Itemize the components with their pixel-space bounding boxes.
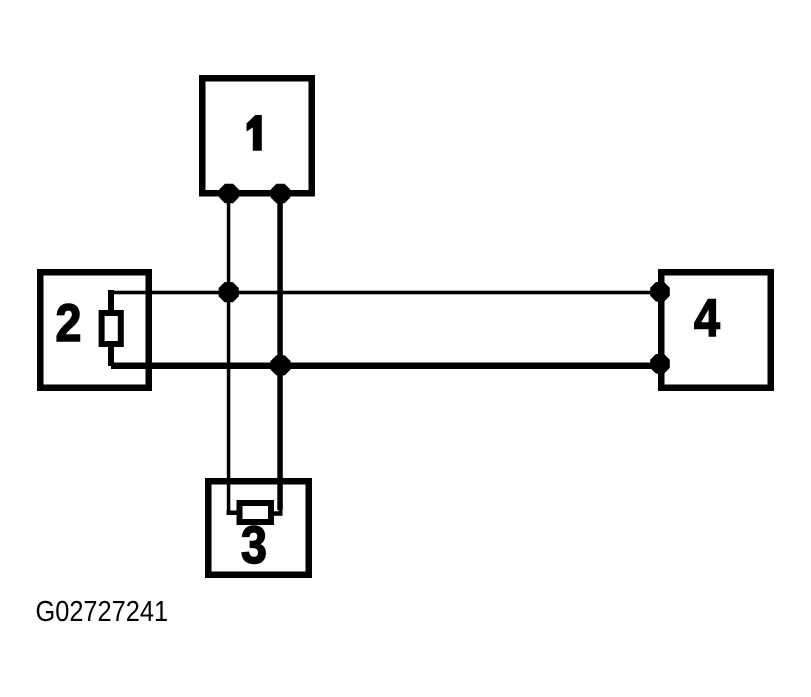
wire: thin horizontal bus between connector 2 and connector 4 <box>108 291 661 295</box>
connector box 2 <box>40 272 149 388</box>
junction dot: splice on bottom bus <box>270 355 290 375</box>
wire: thick horizontal bus between connector 2 and connector 4 <box>111 363 661 370</box>
junction dot: connector 4 top pin <box>650 282 670 302</box>
element E3 inside box 3 (horizontal) <box>227 503 283 522</box>
junction dot: connector 1 left pin <box>219 184 239 204</box>
svg-text:G02727241: G02727241 <box>35 594 168 627</box>
label 1 <box>247 115 262 151</box>
wire: thin vertical from connector 1 pin to splice on top bus <box>227 192 231 515</box>
svg-text:2: 2 <box>56 293 82 352</box>
junction dot: splice on top bus <box>219 282 239 302</box>
connector box 3 <box>208 481 309 575</box>
junction dot: connector 4 bottom pin <box>650 354 670 374</box>
junction dot: connector 1 right pin <box>271 184 291 204</box>
svg-text:4: 4 <box>694 288 720 347</box>
element E2 inside box 2 (vertical) <box>102 290 121 366</box>
connector box 4 <box>661 272 771 388</box>
connector box 1 <box>202 78 312 193</box>
wire: thick vertical from connector 1 pin down to component 3 <box>277 192 283 510</box>
